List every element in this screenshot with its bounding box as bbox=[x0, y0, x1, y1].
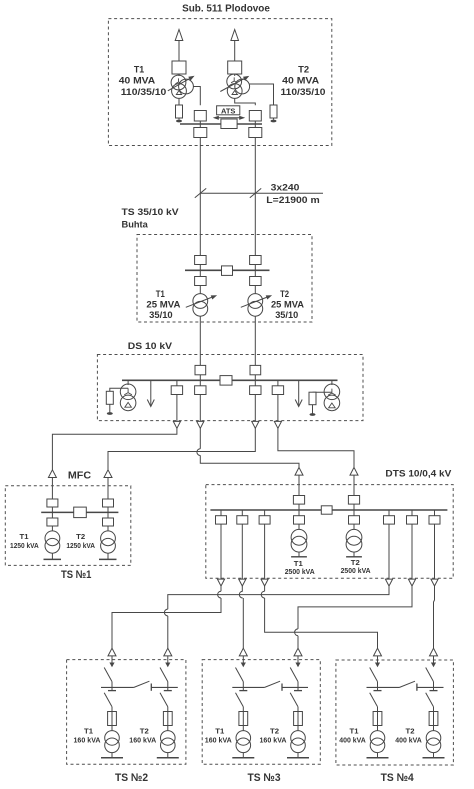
feeder wire 2 DTS bbox=[241, 524, 243, 579]
feeder wire 3 DS bbox=[254, 395, 256, 422]
grid connection arrow line T2 bbox=[234, 41, 236, 62]
substation MFC boundary box (TS no.1) bbox=[5, 486, 131, 566]
feeder breaker 3 DS bbox=[250, 386, 261, 395]
transformer breaker T1 Buhta bbox=[195, 277, 207, 286]
wire TS2 T2 drop lower bbox=[167, 616, 169, 648]
feeder exit arrow 6 DTS bbox=[431, 579, 438, 586]
ground right DS bbox=[312, 405, 314, 414]
wire busbar to feeder breaker 4 DTS bbox=[388, 510, 390, 516]
feeder arrow left DS bbox=[150, 381, 152, 406]
feeder wire 5 DTS bbox=[411, 524, 413, 579]
svg-text:T2: T2 bbox=[406, 729, 415, 736]
ground T2 TS No2 bbox=[167, 753, 169, 758]
transformer T2 MFC 1250 kVA bbox=[101, 531, 116, 546]
transformer T2 TS No2 160 kVA bbox=[161, 731, 176, 746]
ground left DS bbox=[109, 404, 111, 412]
wire T1 neutral bbox=[178, 98, 180, 105]
wire DS feeder 4 to DTS T2 bbox=[278, 428, 354, 467]
wire busbar to feeder breaker 6 DTS bbox=[434, 510, 436, 516]
feeder breaker 3 DTS bbox=[259, 516, 270, 524]
wire T2 Buhta to DS bbox=[254, 316, 256, 371]
wire to transformer T2 DTS bbox=[353, 524, 355, 529]
wire busbar to feeder breaker 2 DTS bbox=[241, 510, 243, 516]
svg-text:T1: T1 bbox=[20, 534, 29, 541]
svg-text:TS №2: TS №2 bbox=[115, 772, 148, 784]
busbar left TS No2 bbox=[101, 686, 134, 688]
feeder exit arrow 4 DS bbox=[274, 421, 281, 428]
bus tie breaker Sub.511 bbox=[221, 119, 237, 129]
breaker incoming T2 DTS bbox=[348, 496, 359, 505]
wire into MFC T1 bbox=[51, 478, 53, 500]
cable tick mark left bbox=[195, 188, 206, 197]
transformer breaker T1 DTS bbox=[294, 516, 305, 524]
busbar right TS No3 bbox=[282, 686, 308, 688]
busbar left TS No3 bbox=[232, 686, 264, 688]
wire input T1 TS No2 bbox=[111, 656, 113, 663]
svg-text:110/35/10: 110/35/10 bbox=[281, 87, 326, 98]
wire to busbar T1 DTS bbox=[298, 504, 300, 510]
feeder exit arrow 4 DTS bbox=[385, 579, 392, 586]
input arrow T2 TS No3 bbox=[294, 648, 302, 656]
wire busbar to breaker T1 Buhta bbox=[199, 270, 201, 276]
input arrow T1 TS No2 bbox=[108, 648, 116, 656]
svg-text:TS №1: TS №1 bbox=[61, 569, 92, 581]
wire T1 35kV winding to breaker column bbox=[193, 87, 200, 106]
wire hop TS3 T2 drop bbox=[295, 629, 298, 636]
wire busbar to feeder breaker 2 DS bbox=[199, 380, 201, 386]
ground T1 TS No2 bbox=[111, 753, 113, 758]
svg-text:400 kVA: 400 kVA bbox=[339, 737, 366, 744]
ATS transfer double arrow bbox=[216, 117, 242, 119]
cable designation fraction line bbox=[200, 192, 323, 194]
disconnector outgoing T1 TS No4 bbox=[370, 693, 378, 707]
wire to transformer T1 Buhta bbox=[199, 286, 201, 294]
wire to busbar left DS bbox=[199, 375, 201, 381]
ground T1 MFC bbox=[51, 553, 53, 559]
wire DTS feeder 3 upper bbox=[264, 586, 266, 591]
ground dot T2 bbox=[273, 118, 275, 120]
bus tie breaker MFC bbox=[74, 507, 87, 517]
wire busbar to breaker T2 DTS bbox=[353, 510, 355, 516]
disconnector outgoing T2 TS No4 bbox=[426, 693, 434, 707]
wire DS feeder 1 to MFC T1 bbox=[52, 428, 176, 470]
grid arrow head T2 bbox=[231, 30, 239, 41]
svg-text:T1: T1 bbox=[294, 561, 303, 568]
transformer breaker T1 MFC bbox=[47, 518, 58, 526]
busbar right TS No2 bbox=[151, 686, 178, 688]
wire to busbar T1 Buhta bbox=[199, 265, 201, 271]
wire busbar to feeder breaker 3 DS bbox=[254, 380, 256, 386]
feeder wire 3 DTS bbox=[264, 524, 266, 579]
wire input T2 TS No3 bbox=[297, 656, 299, 663]
svg-text:TS 35/10 kV: TS 35/10 kV bbox=[122, 207, 180, 218]
disconnector outgoing T2 TS No2 bbox=[160, 693, 168, 707]
svg-text:DTS 10/0,4 kV: DTS 10/0,4 kV bbox=[385, 468, 452, 479]
bus tie disconnector TS No4 bbox=[400, 681, 416, 687]
surge resistor left DS bbox=[106, 391, 113, 404]
svg-text:160 kVA: 160 kVA bbox=[260, 737, 287, 744]
wire fuse to transformer T1 TS No4 bbox=[377, 726, 379, 731]
fuse T1 TS No3 bbox=[239, 712, 248, 726]
svg-text:25 MVA: 25 MVA bbox=[146, 300, 180, 311]
wire into DTS T1 bbox=[298, 475, 300, 496]
neutral grounding resistor T2 bbox=[270, 105, 277, 118]
substation Buhta boundary box bbox=[137, 235, 312, 323]
svg-text:160 kVA: 160 kVA bbox=[129, 737, 156, 744]
grid connection arrow line T1 bbox=[178, 41, 180, 62]
ground T1 DTS bbox=[298, 552, 300, 557]
wire DS feeder 3 to MFC T2 bbox=[108, 428, 255, 470]
svg-text:Sub. 511 Plodovoe: Sub. 511 Plodovoe bbox=[182, 4, 270, 15]
tap changer arrow T1 bbox=[168, 79, 190, 91]
transformer T1 TS No2 160 kVA bbox=[105, 731, 120, 746]
breaker 10 kV incoming T1 side bbox=[194, 111, 206, 122]
ground T1 TS No4 bbox=[377, 753, 379, 758]
breaker incoming T1 MFC bbox=[47, 499, 58, 507]
wire DTS feeder 2 to TS3 T1 bbox=[242, 598, 244, 648]
disconnector outgoing T2 TS No3 bbox=[290, 693, 298, 707]
wire TS3 T2 drop lower bbox=[297, 636, 299, 649]
svg-text:T2: T2 bbox=[140, 729, 149, 736]
svg-text:3x240: 3x240 bbox=[271, 183, 300, 194]
feeder wire 4 DS bbox=[277, 395, 279, 422]
bus tie breaker DS bbox=[220, 376, 232, 386]
feeder exit arrow 2 DS bbox=[197, 421, 204, 428]
outgoing cable wire left bbox=[199, 138, 201, 194]
transformer T1 Buhta 25 MVA bbox=[193, 294, 208, 309]
breaker incoming right DS bbox=[250, 365, 261, 374]
ground T1 TS No3 bbox=[242, 753, 244, 758]
svg-text:160 kVA: 160 kVA bbox=[74, 737, 101, 744]
wire busbar to feeder breaker 4 DS bbox=[277, 380, 279, 386]
wire fuse to transformer T2 TS No2 bbox=[167, 726, 169, 731]
wire fuse to transformer T2 TS No4 bbox=[433, 726, 435, 731]
breaker 10 kV incoming T2 side bbox=[249, 111, 261, 122]
wire fuse to transformer T1 TS No2 bbox=[111, 726, 113, 731]
breaker 110 kV T2 bbox=[228, 61, 242, 74]
svg-text:160 kVA: 160 kVA bbox=[205, 737, 232, 744]
feeder exit arrow 3 DTS bbox=[261, 579, 268, 586]
feeder exit arrow 1 DS bbox=[173, 421, 180, 428]
svg-text:1250 kVA: 1250 kVA bbox=[66, 543, 95, 550]
svg-text:L=21900 m: L=21900 m bbox=[266, 195, 319, 206]
bus tie breaker DTS bbox=[321, 506, 332, 514]
svg-text:T1: T1 bbox=[84, 729, 93, 736]
transformer T1 TS No4 400 kVA bbox=[370, 731, 385, 746]
surge resistor wire right DS bbox=[313, 391, 332, 393]
substation TS No3 boundary box bbox=[202, 660, 320, 765]
cable end arrow T1 TS No4 bbox=[375, 663, 380, 668]
wire to busbar T2 DTS bbox=[353, 504, 355, 510]
svg-text:T1: T1 bbox=[156, 289, 166, 300]
wire hop DTS feeder 1 bbox=[218, 591, 221, 598]
tap changer arrow T1 Buhta bbox=[186, 297, 212, 307]
input arrow T2 TS No4 bbox=[430, 648, 438, 656]
busbar right TS No4 bbox=[417, 686, 444, 688]
busbar 35 kV Buhta bbox=[185, 269, 270, 271]
feeder wire 4 DTS bbox=[388, 524, 390, 579]
feeder exit arrow 1 DTS bbox=[217, 579, 224, 586]
wire hop DTS feeder 3 bbox=[261, 591, 264, 598]
svg-text:2500 kVA: 2500 kVA bbox=[341, 568, 371, 575]
wire busbar to breaker T2 Buhta bbox=[254, 270, 256, 276]
feeder exit arrow 3 DS bbox=[252, 421, 259, 428]
feeder breaker 4 DS bbox=[272, 386, 283, 395]
wire to transformer T1 DTS bbox=[298, 524, 300, 529]
ground T2 DTS bbox=[353, 552, 355, 557]
busbar left TS No4 bbox=[367, 686, 400, 688]
svg-text:T1: T1 bbox=[215, 729, 224, 736]
wire to transformer T2 MFC bbox=[107, 526, 109, 531]
neutral grounding resistor T1 bbox=[176, 105, 183, 118]
feeder wire 2 DS bbox=[199, 395, 201, 422]
breaker 35 kV incoming T2 Buhta bbox=[250, 256, 262, 265]
grid arrow head T1 bbox=[175, 30, 183, 41]
svg-text:TS №3: TS №3 bbox=[247, 772, 280, 784]
wire input T2 TS No2 bbox=[167, 656, 169, 663]
wire input T1 TS No3 bbox=[242, 656, 244, 663]
feeder breaker left Sub.511 bbox=[194, 128, 207, 138]
wire DTS feeder 4 to TS2 T2 bbox=[168, 586, 389, 609]
svg-text:40 MVA: 40 MVA bbox=[119, 76, 156, 87]
fuse T1 TS No2 bbox=[108, 712, 117, 726]
svg-text:Buhta: Buhta bbox=[122, 219, 149, 230]
svg-text:35/10: 35/10 bbox=[149, 310, 173, 321]
svg-text:400 kVA: 400 kVA bbox=[395, 737, 422, 744]
wire busbar to breaker T1 DTS bbox=[298, 510, 300, 516]
bus tie disconnector TS No2 bbox=[134, 681, 150, 687]
DTS input arrow T1 bbox=[295, 467, 303, 475]
MFC input arrow T2 bbox=[104, 470, 112, 478]
disconnector incoming T1 TS No2 bbox=[104, 668, 112, 682]
svg-text:T2: T2 bbox=[270, 729, 279, 736]
transformer T2 three-winding bbox=[227, 74, 242, 89]
wire DTS feeder 1 to TS2 T1 bbox=[112, 598, 221, 648]
wire hop TS2 T2 drop bbox=[164, 609, 167, 616]
feeder wire 1 DTS bbox=[220, 524, 222, 579]
surge resistor wire left DS bbox=[110, 388, 128, 391]
disconnector incoming T1 TS No4 bbox=[370, 668, 378, 682]
wire to busbar T1 side bbox=[199, 121, 201, 124]
disconnector outgoing T1 TS No2 bbox=[104, 693, 112, 707]
wire DTS feeder 6 to TS4 T2 bbox=[434, 586, 435, 648]
fuse T2 TS No2 bbox=[163, 712, 172, 726]
feeder breaker 4 DTS bbox=[384, 516, 395, 524]
cable end arrow T1 TS No3 bbox=[241, 663, 246, 668]
transformer T2 TS No4 400 kVA bbox=[426, 731, 441, 746]
feeder breaker 5 DTS bbox=[407, 516, 418, 524]
cable line continuation left bbox=[199, 193, 201, 256]
wire busbar to feeder breaker 3 DTS bbox=[264, 510, 266, 516]
wire DTS feeder 3 to TS4 T1 bbox=[265, 598, 378, 648]
breaker incoming T2 MFC bbox=[103, 499, 114, 507]
transformer T1 three-winding bbox=[171, 75, 186, 90]
transformer T1 TS No3 160 kVA bbox=[236, 731, 251, 746]
wire T2 10kV winding to breaker column bbox=[235, 98, 256, 105]
breaker 110 kV T1 bbox=[172, 61, 186, 74]
wire to busbar T2 MFC bbox=[107, 507, 109, 512]
svg-text:MFC: MFC bbox=[68, 471, 91, 482]
cable end arrow T2 TS No4 bbox=[431, 663, 436, 668]
svg-text:1250 kVA: 1250 kVA bbox=[10, 543, 39, 550]
cable end arrow T2 TS No2 bbox=[165, 663, 170, 668]
cable tick mark right bbox=[250, 188, 261, 197]
busbar 10 kV DS bbox=[122, 379, 338, 381]
input arrow T1 TS No4 bbox=[374, 648, 382, 656]
wire DS feeder 2 lower to DTS T1 bbox=[200, 455, 299, 467]
cable end arrow T2 TS No3 bbox=[295, 663, 300, 668]
svg-text:ATS: ATS bbox=[221, 106, 235, 115]
wire DS feeder 2 upper to DTS T1 bbox=[199, 428, 201, 449]
fuse T2 TS No4 bbox=[429, 712, 438, 726]
wire to busbar right DS bbox=[254, 375, 256, 381]
tap changer arrow T2 Buhta bbox=[241, 297, 267, 307]
input arrow T2 TS No2 bbox=[164, 648, 172, 656]
transformer breaker T2 DTS bbox=[349, 516, 360, 524]
transformer breaker T2 Buhta bbox=[250, 277, 262, 286]
wire busbar to feeder breaker right Sub.511 bbox=[254, 124, 256, 128]
bus tie disconnector TS No3 bbox=[265, 681, 281, 687]
svg-text:T2: T2 bbox=[298, 65, 309, 76]
transformer T1 MFC 1250 kVA bbox=[45, 531, 60, 546]
ground T2 TS No3 bbox=[297, 753, 299, 758]
breaker incoming T1 DTS bbox=[293, 496, 304, 505]
disconnector incoming T2 TS No2 bbox=[160, 668, 168, 682]
transformer T2 Buhta 25 MVA bbox=[248, 294, 263, 309]
wire into DTS T2 bbox=[353, 475, 355, 496]
wire busbar to voltage transformer right bbox=[331, 380, 333, 385]
svg-text:T1: T1 bbox=[134, 65, 145, 76]
feeder breaker 6 DTS bbox=[429, 516, 440, 524]
bus tie breaker Buhta bbox=[222, 266, 233, 276]
busbar 10 kV Sub.511 bbox=[180, 123, 262, 125]
svg-text:T2: T2 bbox=[280, 289, 289, 300]
svg-text:25 MVA: 25 MVA bbox=[271, 300, 304, 311]
wire fuse to transformer T1 TS No3 bbox=[242, 726, 244, 731]
transformer breaker T2 MFC bbox=[103, 518, 114, 526]
feeder wire 1 DS bbox=[176, 395, 178, 422]
outgoing cable wire right bbox=[254, 138, 256, 194]
wire to busbar T2 side bbox=[254, 121, 256, 124]
ground T2 TS No4 bbox=[433, 753, 435, 758]
ground T2 MFC bbox=[107, 553, 109, 559]
DS 10 kV boundary box bbox=[97, 355, 363, 421]
cable line continuation right bbox=[254, 193, 256, 256]
input arrow T1 TS No3 bbox=[239, 648, 247, 656]
fuse T2 TS No3 bbox=[294, 712, 303, 726]
wire into MFC T2 bbox=[107, 478, 109, 500]
feeder breaker right Sub.511 bbox=[249, 128, 262, 138]
feeder exit arrow 5 DTS bbox=[408, 579, 415, 586]
feeder breaker 2 DS bbox=[195, 386, 206, 395]
busbar DTS bbox=[210, 509, 447, 511]
cable end arrow T1 TS No2 bbox=[109, 663, 114, 668]
wire hop DTS feeder 2 bbox=[239, 591, 242, 598]
wire hop DS feeder 2 bbox=[197, 449, 200, 456]
feeder exit arrow 2 DTS bbox=[239, 579, 246, 586]
wire busbar to feeder breaker 1 DTS bbox=[220, 510, 222, 516]
wire to transformer T1 MFC bbox=[51, 526, 53, 531]
svg-text:2500 kVA: 2500 kVA bbox=[285, 569, 315, 576]
surge resistor right DS bbox=[309, 392, 316, 405]
wire T2 35kV winding to grounding resistor bbox=[250, 84, 274, 105]
transformer T1 DTS 2500 kVA bbox=[291, 529, 307, 545]
wire DTS feeder 2 upper bbox=[241, 586, 243, 591]
wire to busbar T1 MFC bbox=[51, 507, 53, 512]
wire busbar to voltage transformer left bbox=[127, 380, 129, 385]
wire fuse to transformer T2 TS No3 bbox=[297, 726, 299, 731]
wire DTS feeder 5 to TS3 T2 bbox=[298, 586, 412, 629]
busbar MFC bbox=[41, 511, 118, 513]
feeder wire 6 DTS bbox=[434, 524, 436, 579]
svg-text:T2: T2 bbox=[351, 560, 360, 567]
wire to transformer T2 Buhta bbox=[254, 286, 256, 294]
ground dot T1 bbox=[178, 118, 180, 120]
svg-text:T1: T1 bbox=[350, 729, 359, 736]
breaker incoming left DS bbox=[195, 365, 206, 374]
fuse T1 TS No4 bbox=[373, 712, 382, 726]
wire T1 Buhta to DS bbox=[199, 316, 201, 371]
wire busbar to feeder breaker left Sub.511 bbox=[199, 124, 201, 128]
wire DTS feeder 1 upper bbox=[220, 586, 222, 591]
wire input T1 TS No4 bbox=[377, 656, 379, 663]
feeder breaker 2 DTS bbox=[237, 516, 248, 524]
wire to busbar T2 Buhta bbox=[254, 265, 256, 271]
transformer T2 DTS 2500 kVA bbox=[346, 529, 362, 545]
tap changer arrow T2 bbox=[220, 79, 244, 92]
svg-text:35/10: 35/10 bbox=[275, 310, 298, 321]
disconnector incoming T2 TS No4 bbox=[426, 668, 434, 682]
label box ATS bbox=[217, 106, 240, 115]
substation TS No2 boundary box bbox=[67, 660, 186, 765]
DTS input arrow T2 bbox=[350, 467, 358, 475]
substation Sub.511 boundary box bbox=[108, 19, 331, 146]
disconnector incoming T1 TS No3 bbox=[236, 668, 244, 682]
wire breaker to transformer T1 bbox=[178, 74, 180, 76]
svg-text:TS №4: TS №4 bbox=[381, 772, 415, 784]
voltage transformer right DS bbox=[324, 384, 340, 400]
svg-text:40 MVA: 40 MVA bbox=[282, 76, 319, 87]
breaker 35 kV incoming T1 Buhta bbox=[195, 256, 207, 265]
svg-text:DS 10 kV: DS 10 kV bbox=[128, 341, 173, 352]
feeder breaker 1 DTS bbox=[216, 516, 227, 524]
feeder breaker 1 DS bbox=[171, 386, 182, 395]
svg-text:110/35/10: 110/35/10 bbox=[121, 87, 167, 98]
disconnector outgoing T1 TS No3 bbox=[236, 693, 244, 707]
wire busbar to breaker T2 MFC bbox=[107, 512, 109, 518]
wire busbar to feeder breaker 1 DS bbox=[176, 380, 178, 386]
transformer T2 TS No3 160 kVA bbox=[291, 731, 306, 746]
wire busbar to breaker T1 MFC bbox=[51, 512, 53, 518]
svg-text:T2: T2 bbox=[76, 534, 85, 541]
disconnector incoming T2 TS No3 bbox=[290, 668, 298, 682]
substation TS No4 boundary box bbox=[336, 660, 454, 765]
wire breaker to transformer T2 bbox=[234, 74, 236, 76]
wire busbar to feeder breaker 5 DTS bbox=[411, 510, 413, 516]
MFC input arrow T1 bbox=[48, 470, 56, 478]
voltage transformer left DS bbox=[120, 384, 136, 400]
feeder arrow right DS bbox=[298, 381, 300, 406]
substation DTS boundary box bbox=[206, 485, 453, 579]
wire input T2 TS No4 bbox=[433, 656, 435, 663]
